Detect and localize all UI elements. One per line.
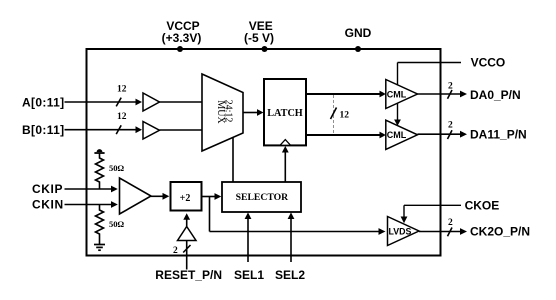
buffer U4 CML lower (386, 120, 418, 149)
selector U6 SELECTOR (222, 182, 301, 212)
bus width 12 slash (A) (116, 98, 121, 107)
svg-text:12: 12 (117, 112, 127, 122)
wire LATCH out lower (12-bit bus) (306, 132, 386, 139)
buffer B (input driver) (143, 122, 160, 140)
svg-text:CK2O_P/N: CK2O_P/N (470, 224, 530, 238)
wire VCCO feed (398, 63, 462, 86)
buffer A (input driver) (143, 93, 160, 111)
pin VCCP label (162, 19, 202, 45)
bus tie dashed line between output buses (333, 95, 335, 134)
bus width 12 slash (LATCH outputs) (331, 108, 337, 120)
wire MUX to LATCH (243, 109, 264, 116)
svg-text:(-5 V): (-5 V) (244, 31, 274, 45)
clock edge symbol on LATCH bottom (280, 140, 291, 146)
svg-text:B[0:11]: B[0:11] (22, 123, 64, 137)
termination rail symbol (top of 50 ohm R1) (94, 149, 104, 153)
svg-text:2: 2 (448, 218, 453, 228)
bus width 12 slash (B) (116, 125, 121, 134)
wire buffer A to MUX (160, 101, 203, 103)
svg-text:12: 12 (340, 110, 350, 120)
svg-text:DA11_P/N: DA11_P/N (470, 128, 527, 142)
svg-text:GND: GND (345, 26, 372, 40)
wire clock buffer to divider (151, 193, 169, 200)
svg-text:50Ω: 50Ω (109, 219, 125, 229)
clock input buffer (differential) (120, 178, 152, 214)
wire MUX select from SELECTOR (232, 138, 234, 182)
wire DA0 output (418, 91, 468, 98)
bus width 2 slash (DA0) (448, 90, 453, 99)
svg-text:+2: +2 (180, 193, 191, 204)
svg-text:DA0_P/N: DA0_P/N (470, 88, 521, 102)
buffer U3 CML upper (386, 80, 418, 109)
svg-text:2: 2 (448, 121, 453, 131)
svg-text:(+3.3V): (+3.3V) (162, 31, 202, 45)
wire RESET_P/N input (186, 241, 188, 270)
svg-text:CKIN: CKIN (32, 198, 64, 212)
node dot GND (355, 46, 361, 52)
svg-text:LVDS: LVDS (389, 226, 412, 236)
wire reset buffer to divider (183, 213, 190, 226)
wire divider to SELECTOR (202, 193, 222, 200)
svg-text:12: 12 (117, 85, 127, 95)
wire CKIP input (65, 186, 118, 193)
buffer U7 LVDS (388, 217, 420, 246)
outer box (IC boundary) (87, 49, 441, 256)
svg-text:2: 2 (173, 246, 178, 256)
bus width 2 slash (RESET) (183, 245, 190, 253)
svg-text:MUX: MUX (215, 100, 226, 124)
bus width 2 slash (CK2O) (448, 228, 453, 237)
wire divider branch down to LVDS (210, 197, 386, 235)
svg-text:CML: CML (387, 130, 407, 140)
svg-text:50Ω: 50Ω (109, 163, 125, 173)
wire DA11 output (418, 131, 468, 138)
wire A input (65, 99, 143, 106)
resistor R2 50 ohm (96, 205, 104, 245)
latch U2 LATCH (264, 79, 306, 145)
svg-text:CML: CML (387, 89, 407, 99)
wire B input (65, 126, 143, 133)
svg-text:CKOE: CKOE (465, 198, 500, 212)
wire CKIN input (65, 201, 118, 208)
wire buffer B to MUX (160, 129, 203, 131)
resistor R1 50 ohm (96, 153, 104, 189)
svg-text:2: 2 (448, 81, 453, 91)
wire VCCO feed CML upper to CML lower (394, 103, 401, 126)
wire LATCH out upper (12-bit bus) (306, 91, 386, 98)
ground (94, 245, 105, 251)
wire SEL1 input (245, 212, 252, 262)
svg-text:SEL1: SEL1 (234, 268, 264, 282)
node dot VCCP (177, 46, 183, 52)
wire SEL2 input (288, 212, 295, 262)
svg-text:VCCO: VCCO (471, 55, 506, 69)
svg-text:SEL2: SEL2 (275, 268, 305, 282)
bus width 2 slash (DA11) (448, 130, 453, 139)
svg-text:A[0:11]: A[0:11] (22, 95, 64, 109)
svg-text:SELECTOR: SELECTOR (236, 192, 290, 203)
wire CKOE feed (401, 205, 461, 223)
pin VEE label (244, 19, 274, 45)
wire SELECTOR to LATCH clock (282, 146, 289, 182)
node dot VEE (262, 46, 268, 52)
svg-text:LATCH: LATCH (267, 108, 303, 119)
divider U5 +2 (171, 182, 202, 211)
svg-text:RESET_P/N: RESET_P/N (155, 268, 222, 282)
wire CK2O output (419, 228, 467, 235)
reset input buffer (178, 227, 197, 241)
svg-text:CKIP: CKIP (32, 182, 63, 196)
mux U1 24:12 MUX (202, 74, 243, 151)
